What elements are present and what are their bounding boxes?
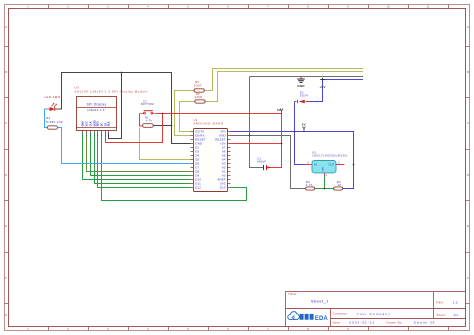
svg-text:CLK: CLK [89, 121, 92, 126]
svg-text:SPI Display: SPI Display [87, 102, 107, 106]
svg-text:SH110K 128x64 1.3 SPI Display: SH110K 128x64 1.3 SPI Display Module [74, 90, 147, 94]
svg-text:Swaim 38: Swaim 38 [414, 321, 436, 325]
svg-text:Drawn By:: Drawn By: [386, 320, 402, 324]
svg-text:D13: D13 [220, 186, 226, 190]
svg-text:RES: RES [96, 121, 99, 126]
svg-text:2023-01-21: 2023-01-21 [349, 320, 375, 324]
svg-text:DISPL-10K: DISPL-10K [46, 120, 63, 124]
svg-text:F: F [5, 276, 7, 280]
svg-text:Your Company: Your Company [357, 312, 391, 316]
svg-text:Company:: Company: [333, 312, 348, 316]
svg-text:+5V: +5V [319, 85, 326, 89]
svg-text:A: A [5, 25, 7, 29]
svg-text:BLK: BLK [107, 121, 110, 126]
svg-text:4.7k: 4.7k [146, 118, 153, 122]
svg-text:GND: GND [297, 84, 305, 88]
svg-text:ARDUINO_NANO: ARDUINO_NANO [193, 122, 223, 126]
svg-text:B: B [467, 70, 469, 74]
svg-text:1/1: 1/1 [453, 313, 458, 317]
svg-text:11: 11 [426, 5, 429, 9]
svg-text:100R: 100R [195, 95, 203, 99]
svg-text:TITLE:: TITLE: [288, 292, 297, 296]
svg-text:VCC: VCC [85, 121, 88, 126]
svg-text:IN: IN [314, 162, 317, 166]
svg-text:E: E [5, 224, 7, 228]
svg-text:A: A [467, 25, 469, 29]
svg-text:OUT: OUT [328, 162, 334, 166]
svg-text:128x64 1.3": 128x64 1.3" [87, 108, 106, 112]
svg-text:1K: 1K [338, 183, 342, 187]
svg-text:D12: D12 [195, 186, 201, 190]
svg-text:SS34: SS34 [300, 93, 308, 97]
svg-text:Sheet_1: Sheet_1 [311, 298, 329, 303]
svg-text:LM317LM339(LM339): LM317LM339(LM339) [312, 154, 348, 158]
svg-text:4.7K: 4.7K [306, 183, 313, 187]
svg-text:GND: GND [81, 121, 84, 127]
svg-text:EDA: EDA [315, 316, 329, 322]
svg-text:DC: DC [100, 123, 103, 127]
svg-text:F: F [467, 276, 469, 280]
svg-text:E: E [467, 224, 469, 228]
svg-text:5V: 5V [302, 123, 306, 127]
svg-text:1.0: 1.0 [453, 300, 458, 304]
svg-text:LED-3MM: LED-3MM [45, 95, 61, 99]
svg-text:GND: GND [322, 167, 324, 172]
svg-text:Sheet:: Sheet: [436, 313, 446, 317]
svg-text:B: B [5, 70, 7, 74]
svg-text:100R: 100R [194, 83, 202, 87]
svg-text:400uF: 400uF [257, 160, 266, 164]
svg-text:10: 10 [386, 5, 390, 9]
svg-text:5V: 5V [277, 108, 281, 112]
svg-text:REV: REV [436, 300, 444, 304]
svg-text:Date:: Date: [333, 320, 341, 324]
svg-text:BOTTOM: BOTTOM [141, 102, 154, 106]
